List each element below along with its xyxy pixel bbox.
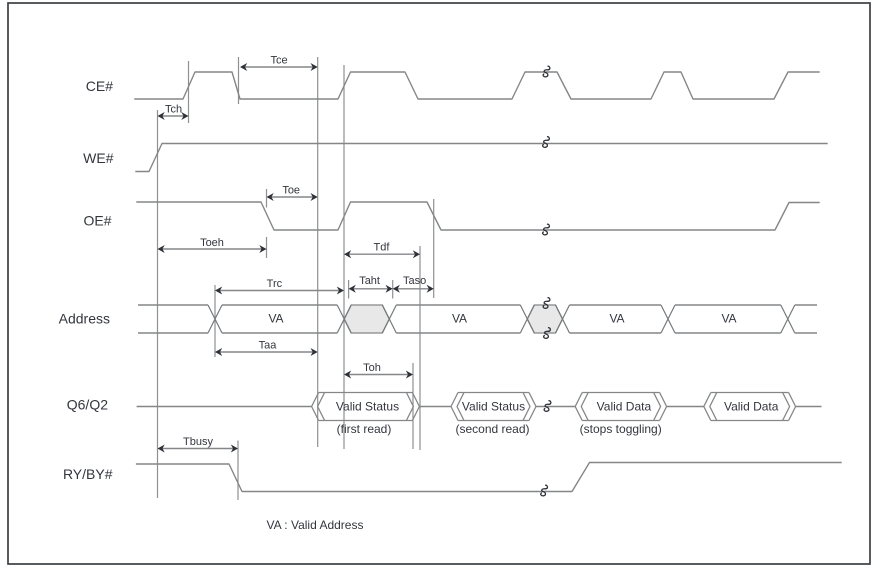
RY/BY# waveform bbox=[137, 463, 841, 492]
svg-text:WE#: WE# bbox=[83, 150, 114, 166]
break squiggle on Address top rail bbox=[543, 298, 550, 309]
break squiggle on Q6/Q2 bbox=[544, 401, 551, 412]
svg-text:VA: VA bbox=[268, 312, 283, 326]
svg-text:VA: VA bbox=[609, 312, 624, 326]
Address invalid section gray hexagon 2 bbox=[527, 305, 562, 333]
svg-text:Taa: Taa bbox=[259, 340, 278, 352]
measurement line at first address crossover (Trc/Taa start) bbox=[214, 285, 216, 357]
Q6/Q2 Valid Status (first read) hexagon bbox=[312, 393, 420, 437]
svg-text:Valid Status: Valid Status bbox=[462, 400, 525, 414]
CE# waveform bbox=[135, 72, 819, 99]
svg-text:(first read): (first read) bbox=[337, 422, 392, 436]
Taht timing arrow bbox=[349, 275, 393, 293]
tick at OE# fall (Toe start) bbox=[266, 189, 268, 208]
Q6/Q2 Valid Data (stops toggling) hexagon bbox=[575, 393, 666, 437]
svg-text:Tdf: Tdf bbox=[374, 242, 391, 254]
measurement line at Taso end / OE# second fall bbox=[433, 199, 435, 298]
measurement line at RY/BY# fall (Tbusy end) bbox=[237, 441, 239, 501]
Trc timing arrow bbox=[215, 278, 344, 295]
svg-text:(second read): (second read) bbox=[455, 422, 529, 436]
svg-text:CE#: CE# bbox=[86, 78, 113, 94]
svg-text:Toe: Toe bbox=[282, 185, 300, 197]
Tdf timing arrow bbox=[344, 242, 420, 259]
svg-text:Trc: Trc bbox=[267, 278, 283, 290]
WE# waveform bbox=[136, 144, 827, 172]
measurement line at CE# first rise (Tch end) bbox=[188, 61, 190, 123]
break squiggle on RY/BY# bbox=[541, 485, 548, 496]
svg-text:Toh: Toh bbox=[363, 362, 381, 374]
measurement line at WE# rise (Tch/Toeh/Taa/Tbusy origin) bbox=[157, 110, 159, 498]
tick at OE# fall (Toeh end) bbox=[266, 237, 268, 258]
measurement line at Toh end bbox=[412, 363, 414, 449]
Taa timing arrow bbox=[215, 340, 318, 357]
svg-text:Tbusy: Tbusy bbox=[183, 436, 213, 448]
Address bus crossover X transitions bbox=[208, 305, 795, 333]
Tce timing arrow bbox=[240, 55, 318, 72]
svg-text:VA: VA bbox=[452, 312, 467, 326]
Taso timing arrow bbox=[393, 275, 434, 293]
svg-text:Q6/Q2: Q6/Q2 bbox=[67, 397, 108, 413]
svg-text:Tch: Tch bbox=[165, 104, 182, 116]
Tbusy timing arrow bbox=[158, 436, 239, 453]
svg-text:OE#: OE# bbox=[83, 213, 111, 229]
svg-text:Valid Data: Valid Data bbox=[597, 400, 652, 414]
svg-text:Taso: Taso bbox=[403, 275, 426, 287]
Address bus rails bbox=[138, 305, 817, 333]
Toh timing arrow bbox=[344, 362, 413, 379]
break squiggle on Address bottom rail bbox=[544, 328, 551, 339]
svg-text:Toeh: Toeh bbox=[200, 237, 224, 249]
svg-text:Valid Status: Valid Status bbox=[336, 400, 399, 414]
OE# waveform bbox=[137, 202, 819, 230]
break squiggle on CE# bbox=[543, 66, 550, 77]
svg-text:Tce: Tce bbox=[270, 55, 287, 67]
Tch timing arrow bbox=[158, 104, 189, 121]
Q6/Q2 baseline wire segments bbox=[137, 406, 822, 408]
tick Taht end / Taso start bbox=[392, 280, 394, 299]
svg-text:VA: VA bbox=[721, 312, 736, 326]
break squiggle on WE# bbox=[543, 137, 550, 148]
svg-text:VA : Valid Address: VA : Valid Address bbox=[267, 518, 364, 532]
Toeh timing arrow bbox=[158, 237, 267, 253]
svg-text:Taht: Taht bbox=[359, 275, 380, 287]
measurement line at CE# first fall (Tce start) bbox=[238, 57, 240, 104]
measurement line at CE#/OE# second rise (Trc/Tdf/Toh start) bbox=[343, 65, 345, 449]
svg-text:Valid Data: Valid Data bbox=[724, 400, 779, 414]
measurement line at Tdf end bbox=[419, 246, 421, 450]
Q6/Q2 Valid Data hexagon bbox=[704, 393, 796, 421]
Toe timing arrow bbox=[267, 185, 318, 202]
break squiggle on OE# bbox=[543, 224, 550, 235]
Address invalid section gray hexagon 1 bbox=[344, 305, 389, 333]
Q6/Q2 Valid Status (second read) hexagon bbox=[451, 393, 536, 437]
svg-text:(stops toggling): (stops toggling) bbox=[580, 422, 662, 436]
svg-text:RY/BY#: RY/BY# bbox=[63, 466, 113, 482]
measurement line at first data valid (Tce/Toe/Taa end) bbox=[317, 57, 319, 447]
svg-text:Address: Address bbox=[59, 311, 110, 327]
tick Taht start bbox=[348, 280, 350, 299]
